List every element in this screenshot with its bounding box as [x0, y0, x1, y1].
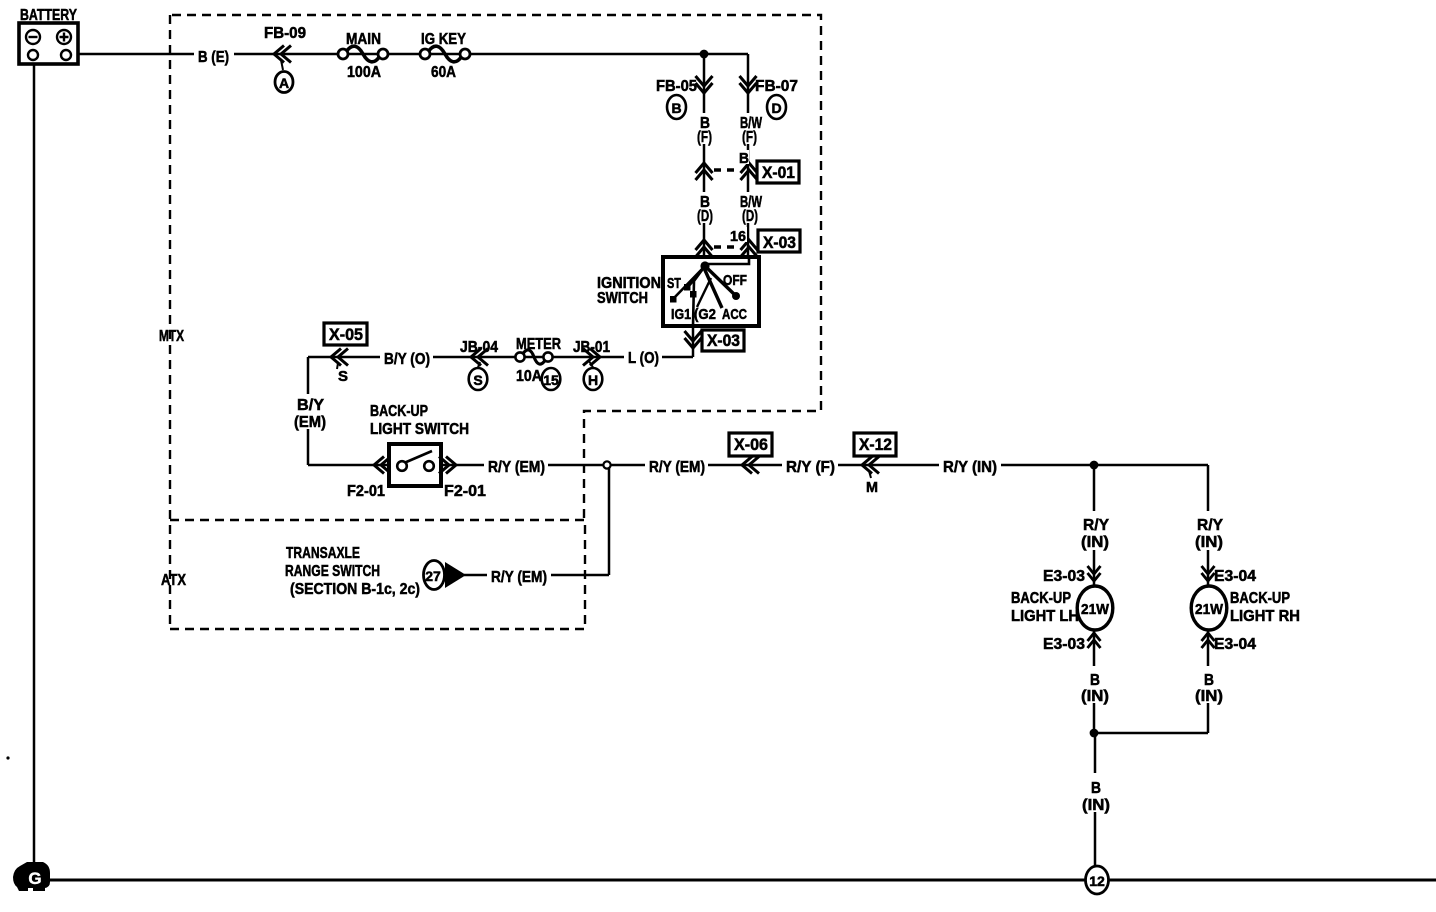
svg-text:JB-04: JB-04: [460, 339, 498, 356]
MTX dashed box outline: [172, 15, 821, 519]
svg-text:FB-09: FB-09: [264, 25, 306, 42]
connector box X-06: [729, 433, 772, 456]
svg-text:B: B: [739, 150, 749, 167]
svg-text:ACC: ACC: [722, 306, 747, 323]
svg-text:15: 15: [543, 372, 559, 388]
svg-text:SWITCH: SWITCH: [597, 290, 648, 307]
connector chevron X-05: [331, 349, 348, 366]
grid ref circle H: [589, 361, 594, 369]
svg-text:FB-07: FB-07: [755, 78, 798, 95]
wire: transaxle range switch output: [464, 574, 609, 577]
MTX/ATX divider dashed line: [170, 519, 584, 521]
svg-text:X-03: X-03: [763, 233, 796, 252]
pin label 16: [728, 227, 747, 242]
wire label R/Y (EM) second: [645, 455, 708, 474]
svg-text:B: B: [671, 100, 681, 116]
svg-text:R/Y (IN): R/Y (IN): [943, 459, 997, 476]
svg-text:R/Y (EM): R/Y (EM): [491, 569, 547, 586]
ground ref circle 12: [1086, 866, 1109, 894]
junction dot top bus: [700, 50, 709, 59]
stray fax dot: [6, 756, 9, 759]
svg-text:X-12: X-12: [859, 435, 892, 454]
connector to X-03 below ignition switch: [685, 331, 702, 348]
svg-text:100A: 100A: [347, 64, 381, 81]
junction dot lamp return: [1090, 729, 1099, 738]
svg-text:MTX: MTX: [159, 328, 184, 345]
MTX/ATX left dashed edge: [169, 15, 171, 629]
svg-text:S: S: [338, 368, 348, 385]
battery terminal circles: [28, 50, 38, 60]
connector pair X-01: [696, 163, 713, 180]
grid ref circle 15: [542, 368, 561, 390]
dashed tie X-01: [714, 168, 740, 171]
battery box: [19, 23, 78, 64]
wire: bottom link between lamp returns: [1094, 732, 1208, 735]
svg-text:(EM): (EM): [294, 414, 326, 431]
switch terminal circles: [397, 461, 407, 471]
ignition wiper to OFF contact: [706, 267, 735, 295]
svg-text:(G2: (G2: [694, 306, 716, 323]
svg-text:X-06: X-06: [734, 435, 768, 454]
svg-text:H: H: [588, 372, 598, 388]
pin label B: [737, 150, 749, 164]
svg-text:L (O): L (O): [628, 350, 659, 367]
wire label R/Y (IN) right lamp: [1192, 511, 1226, 550]
svg-text:E3-03: E3-03: [1043, 636, 1085, 653]
svg-text:12: 12: [1089, 873, 1105, 889]
svg-text:IG KEY: IG KEY: [421, 31, 466, 48]
svg-text:R/Y (F): R/Y (F): [786, 459, 835, 476]
wire label B/Y (EM): [292, 394, 328, 429]
svg-text:B: B: [1204, 672, 1214, 689]
svg-text:ST: ST: [667, 275, 681, 292]
wire: transaxle riser to node: [608, 468, 611, 575]
svg-text:(IN): (IN): [1082, 797, 1110, 814]
output arrow triangle: [445, 562, 466, 588]
svg-text:ATX: ATX: [161, 572, 186, 589]
connector chevron X-06: [742, 457, 759, 474]
wire label B (IN) ground drop: [1080, 773, 1112, 812]
ignition switch box: [663, 257, 759, 326]
wire label B/W (F): [738, 113, 763, 144]
svg-text:(F): (F): [697, 129, 712, 146]
back-up light RH bulb 21W: [1191, 586, 1227, 630]
svg-text:METER: METER: [516, 336, 561, 353]
connector box X-05: [324, 323, 367, 345]
svg-text:F2-01: F2-01: [444, 483, 486, 500]
wire: ground drop to circled 12: [1094, 733, 1097, 867]
svg-text:21W: 21W: [1081, 601, 1110, 618]
svg-text:21W: 21W: [1195, 601, 1224, 618]
connector chevron left of switch F2-01: [374, 457, 391, 474]
svg-text:27: 27: [425, 568, 441, 584]
grid ref circle S: [477, 362, 480, 370]
ignition switch feed line inside: [705, 259, 749, 264]
wire: battery negative down to ground: [33, 62, 36, 866]
wire: ignition switch output down: [692, 326, 695, 357]
ignition wiper to output: [693, 266, 705, 326]
wire label B/W (D): [738, 192, 763, 223]
svg-text:RANGE SWITCH: RANGE SWITCH: [285, 563, 380, 580]
back-up light LH bulb 21W: [1077, 586, 1113, 630]
wire: ground bus along bottom: [46, 879, 1436, 882]
svg-text:JB-01: JB-01: [573, 339, 610, 356]
ATX dashed box bottom/right: [170, 520, 585, 629]
svg-text:R/Y (EM): R/Y (EM): [649, 459, 705, 476]
ignition switch common dot: [700, 261, 709, 270]
svg-text:R/Y (EM): R/Y (EM): [488, 459, 545, 476]
svg-text:BACK-UP: BACK-UP: [370, 403, 428, 420]
wire label R/Y (EM): [484, 455, 548, 474]
terminal circle 27: [424, 561, 445, 590]
svg-text:FB-05: FB-05: [656, 78, 697, 95]
battery minus symbol: [26, 30, 40, 44]
svg-text:X-01: X-01: [762, 163, 795, 182]
connector box X-03 lower: [702, 330, 744, 351]
svg-text:X-05: X-05: [329, 325, 363, 344]
svg-text:60A: 60A: [431, 64, 456, 81]
svg-text:G: G: [28, 869, 41, 888]
wire: left drop B(F)/B(D) into ignition switch: [703, 54, 706, 257]
svg-text:B: B: [1091, 780, 1101, 797]
svg-text:TRANSAXLE: TRANSAXLE: [286, 545, 360, 562]
svg-text:F2-01: F2-01: [347, 483, 385, 500]
svg-text:A: A: [279, 75, 289, 91]
wire label B (D): [696, 192, 713, 223]
wire: back-up light switch row to right lamps: [308, 464, 1208, 467]
wire label R/Y (F): [782, 455, 838, 474]
svg-text:IG1: IG1: [671, 306, 691, 323]
svg-text:E3-03: E3-03: [1043, 568, 1085, 585]
wire label B (IN) left: [1079, 666, 1111, 703]
wire label B (F): [696, 113, 713, 144]
svg-text:BACK-UP: BACK-UP: [1230, 590, 1290, 607]
connector box X-01: [757, 161, 799, 183]
svg-text:R/Y: R/Y: [1083, 517, 1109, 534]
connector box X-03: [758, 230, 800, 252]
grid ref circle B: [667, 95, 686, 119]
grid ref circle A: [275, 72, 293, 93]
svg-text:BACK-UP: BACK-UP: [1011, 590, 1071, 607]
svg-text:(SECTION B-1c, 2c): (SECTION B-1c, 2c): [290, 581, 420, 598]
wire label R/Y (IN): [939, 455, 1001, 474]
wire label R/Y (IN) left lamp: [1078, 511, 1112, 550]
svg-text:(IN): (IN): [1195, 534, 1223, 551]
wire label R/Y (EM) transaxle: [487, 565, 551, 584]
svg-text:B (E): B (E): [198, 49, 229, 66]
node: open circle junction: [603, 461, 610, 468]
svg-text:LIGHT LH: LIGHT LH: [1011, 608, 1079, 625]
svg-text:10A: 10A: [516, 368, 542, 385]
svg-text:16: 16: [730, 228, 746, 245]
svg-text:D: D: [771, 100, 781, 116]
wire: X-05 corner down to back-up light switch row: [307, 357, 310, 465]
back-up light switch box: [389, 444, 441, 486]
wire: meter row horizontal: [308, 356, 693, 359]
svg-text:E3-04: E3-04: [1214, 636, 1256, 653]
svg-text:B/Y (O): B/Y (O): [384, 351, 430, 368]
svg-text:B/Y: B/Y: [297, 397, 324, 414]
switch blade: [404, 451, 432, 463]
svg-text:OFF: OFF: [723, 272, 747, 289]
battery plus symbol: [57, 30, 71, 44]
wire: right lamp drop: [1207, 465, 1210, 733]
ignition wiper to ST contact: [688, 266, 705, 287]
wire: top bus battery to right drop: [71, 53, 748, 56]
wire label B (IN) right: [1193, 666, 1225, 703]
svg-text:LIGHT SWITCH: LIGHT SWITCH: [370, 421, 469, 438]
wire: right drop B/W(F)/B/W(D) into ignition switch: [747, 54, 750, 264]
ignition wiper to IG1 contact: [673, 266, 705, 299]
svg-text:(IN): (IN): [1195, 688, 1223, 705]
svg-text:M: M: [866, 479, 878, 496]
dashed tie X-03: [714, 245, 740, 248]
junction dot lamps feed: [1090, 461, 1099, 470]
connector box X-12: [854, 433, 896, 456]
svg-text:(D): (D): [697, 208, 713, 225]
svg-text:B: B: [1090, 672, 1100, 689]
svg-text:S: S: [473, 372, 482, 388]
connector chevron right of switch F2-01: [439, 457, 456, 474]
svg-text:(IN): (IN): [1081, 688, 1109, 705]
svg-text:X-03: X-03: [707, 331, 740, 350]
svg-text:(D): (D): [742, 208, 758, 225]
svg-text:LIGHT RH: LIGHT RH: [1230, 608, 1300, 625]
connector pair X-03: [696, 240, 713, 257]
ignition wiper to ACC contact: [704, 268, 722, 308]
svg-text:(IN): (IN): [1081, 534, 1109, 551]
svg-text:R/Y: R/Y: [1197, 517, 1223, 534]
wire label B/Y (O): [380, 346, 433, 366]
wire label B (E): [194, 44, 234, 64]
wire: left lamp drop: [1093, 465, 1096, 733]
wire label L (O): [624, 347, 662, 366]
grid ref circle D: [767, 95, 786, 119]
svg-text:E3-04: E3-04: [1214, 568, 1256, 585]
svg-text:(F): (F): [742, 129, 757, 146]
connector chevron X-12: [862, 457, 879, 474]
